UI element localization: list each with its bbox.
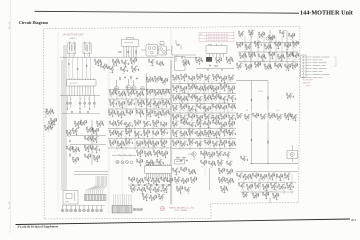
transistor Q95: [199, 106, 202, 109]
resistor R252: [109, 130, 112, 133]
transistor Q72: [207, 77, 210, 80]
transistor Q76: [175, 87, 178, 90]
capacitor C171: [73, 132, 75, 134]
wire: [88, 149, 90, 150]
wire: [296, 45, 298, 46]
resistor R214: [86, 127, 89, 130]
resistor R212: [80, 120, 83, 123]
ground: [112, 71, 114, 73]
wire: [238, 61, 298, 63]
capacitor C168: [81, 124, 83, 126]
ground: [89, 108, 91, 110]
wire: [297, 53, 299, 54]
wire: [126, 124, 128, 126]
wire: [137, 143, 139, 145]
page bottom rule: [16, 219, 351, 225]
value label: [185, 114, 187, 116]
resistor R240: [49, 125, 52, 128]
wire: [209, 154, 211, 156]
wire: [119, 103, 121, 105]
test point TP2: [121, 161, 124, 164]
ground: [229, 62, 231, 64]
wire: [233, 86, 235, 87]
resistor R282: [161, 151, 164, 154]
resistor R104: [154, 90, 157, 93]
resistor R299: [217, 120, 220, 123]
wire: [110, 92, 112, 94]
wire: [229, 77, 231, 79]
capacitor C131: [211, 98, 213, 100]
resistor R201: [260, 114, 263, 117]
value label: [75, 146, 77, 148]
transistor Q11: [198, 59, 201, 62]
value label: [139, 158, 141, 160]
wire: [239, 33, 241, 35]
resistor R130: [185, 74, 188, 77]
node: [126, 102, 129, 105]
wire: [129, 143, 131, 144]
wire: [259, 56, 261, 58]
value label: [48, 130, 50, 132]
wire: [131, 104, 133, 105]
transistor Q98: [223, 107, 226, 110]
resistor R140: [228, 75, 231, 78]
wire: [137, 152, 139, 154]
wire: [84, 88, 86, 96]
node: [257, 34, 260, 37]
transistor Q92: [175, 107, 178, 110]
wire: [147, 125, 149, 126]
wire: [185, 115, 187, 116]
svg-text:T8: T8: [210, 85, 212, 87]
capacitor C83: [138, 104, 140, 106]
transistor Q172: [183, 133, 186, 136]
wire: [252, 56, 254, 57]
wire: [51, 109, 53, 110]
value label: [202, 165, 204, 167]
wire: [249, 54, 251, 56]
capacitor C62: [51, 122, 53, 124]
wire: [225, 96, 227, 97]
capacitor C156: [237, 117, 239, 119]
wire: [279, 63, 281, 64]
wire: [230, 165, 232, 166]
value label: [294, 58, 296, 60]
capacitor C84: [144, 103, 146, 105]
wire: [245, 116, 247, 118]
transistor Q77: [183, 88, 186, 91]
wire: [244, 53, 246, 54]
resistor R176: [209, 106, 212, 109]
wire: [209, 140, 211, 141]
wire: [200, 124, 202, 125]
capacitor C50: [86, 65, 88, 67]
capacitor C261: [209, 156, 211, 158]
wire: [283, 34, 285, 35]
wire: [201, 141, 203, 142]
node: [143, 153, 146, 156]
ground: [116, 64, 118, 66]
wire: [98, 155, 100, 156]
wire: [153, 90, 155, 116]
transistor Q118: [77, 123, 80, 126]
node: [92, 157, 95, 160]
wire: [90, 88, 92, 96]
ground: [176, 90, 178, 92]
wire: [209, 126, 211, 150]
wire: [131, 110, 133, 111]
capacitor C34: [249, 56, 251, 58]
resistor R52: [253, 52, 256, 55]
capacitor C256: [219, 144, 221, 146]
capacitor C196: [153, 124, 155, 126]
wire: [137, 161, 139, 163]
resistor R334: [224, 152, 227, 155]
value label: [257, 40, 259, 42]
capacitor C115: [181, 90, 183, 92]
capacitor C35: [255, 55, 257, 57]
capacitor C257: [221, 144, 223, 146]
resistor R5: [135, 58, 138, 61]
value label: [261, 37, 263, 39]
wire: [172, 128, 236, 130]
resistor R15: [148, 59, 151, 62]
transistor Q17: [261, 34, 264, 37]
capacitor C207: [118, 145, 120, 147]
resistor R328: [233, 141, 236, 144]
wire: [125, 126, 127, 150]
capacitor C27: [255, 45, 257, 47]
wire: [73, 52, 75, 57]
wire: [231, 161, 233, 162]
capacitor C244: [213, 135, 215, 137]
resistor R96: [109, 100, 112, 103]
capacitor C46: [281, 66, 283, 68]
capacitor C12: [127, 51, 129, 53]
resistor R292: [180, 120, 183, 123]
resistor R32: [268, 35, 271, 38]
wire: [257, 36, 259, 66]
resistor R77: [51, 109, 54, 112]
transistor Q33: [289, 54, 292, 57]
resistor R327: [228, 141, 231, 144]
value label: [232, 140, 234, 142]
node: [187, 131, 190, 134]
transistor Q160: [139, 161, 142, 164]
wire: [176, 99, 178, 100]
wire: [222, 160, 224, 161]
node: [151, 122, 154, 125]
value label: [276, 68, 278, 70]
wire: [93, 148, 95, 150]
value label: [52, 120, 54, 122]
wire: [154, 152, 156, 154]
resistor R173: [188, 106, 191, 109]
capacitor C159: [269, 117, 271, 119]
wire: [249, 48, 251, 49]
wire: [244, 36, 246, 66]
resistor R172: [185, 104, 188, 107]
resistor R27: [187, 60, 190, 63]
wire: [159, 111, 161, 112]
transistor Q8: [134, 68, 137, 71]
wire: [253, 30, 255, 31]
resistor R33: [273, 35, 276, 38]
transistor Q26: [287, 45, 290, 48]
wire: [253, 115, 255, 117]
wire: [141, 49, 146, 51]
resistor R264: [114, 140, 117, 143]
wire: [228, 156, 230, 157]
wire: [224, 100, 226, 101]
node: [211, 106, 214, 109]
value label: [206, 135, 208, 137]
resistor R245: [134, 120, 137, 123]
wire: [224, 133, 226, 134]
wire: [213, 96, 215, 98]
binder hole bottom: [9, 202, 11, 209]
wire: [73, 130, 75, 132]
wire: [221, 164, 223, 165]
wire: [197, 88, 199, 90]
capacitor C173: [91, 139, 93, 141]
wire: [209, 95, 211, 96]
wire: [267, 110, 269, 122]
wire: [150, 104, 152, 105]
wire: [138, 102, 140, 104]
resistor R111: [122, 111, 125, 114]
value label: [207, 90, 209, 92]
value label: [136, 65, 138, 67]
transistor Q89: [215, 96, 218, 99]
wire: [98, 63, 100, 64]
resistor R14: [161, 61, 164, 64]
core: [70, 45, 73, 52]
svg-text:P8: P8: [200, 34, 202, 36]
transistor Q147: [155, 133, 158, 136]
value label: [230, 91, 232, 93]
IC label: [124, 42, 133, 44]
node: [171, 123, 174, 126]
capacitor C121: [213, 90, 215, 92]
wire: [84, 124, 86, 125]
transistor Q149: [112, 142, 115, 145]
value label: [182, 125, 184, 127]
capacitor C150: [213, 119, 215, 121]
value label: [232, 114, 234, 116]
capacitor C93: [124, 114, 126, 116]
wire: [217, 94, 219, 95]
transistor Q145: [137, 133, 140, 136]
capacitor C119: [205, 89, 207, 91]
transistor Q60: [129, 112, 132, 115]
wire: [108, 98, 171, 100]
wire: [110, 102, 112, 104]
value label: [231, 126, 233, 128]
transistor Q56: [157, 92, 160, 95]
transistor Q155: [163, 142, 166, 145]
resistor R170: [172, 105, 175, 108]
value label: [200, 103, 202, 105]
resistor R259: [148, 130, 151, 133]
wire: [185, 141, 187, 142]
capacitor C76: [161, 79, 163, 81]
wire: [212, 55, 214, 57]
transistor Q138: [137, 122, 140, 125]
value label: [222, 127, 224, 129]
wire: [246, 46, 248, 48]
capacitor C126: [181, 100, 183, 102]
wire: [165, 140, 167, 141]
svg-text:48-3: 48-3: [351, 219, 357, 222]
node: [203, 97, 206, 100]
value label: [270, 40, 272, 42]
capacitor C254: [197, 145, 199, 147]
value label: [174, 80, 176, 82]
ground: [184, 79, 186, 81]
node: [235, 44, 238, 47]
capacitor C57: [71, 111, 73, 113]
resistor R225: [84, 154, 87, 157]
capacitor C79: [116, 103, 118, 105]
resistor R271: [149, 140, 152, 143]
wire: [89, 104, 91, 108]
resistor R7: [99, 59, 102, 62]
transistor Q51: [112, 102, 115, 105]
value label: [251, 29, 253, 31]
capacitor C154: [235, 118, 237, 120]
resistor R174: [196, 104, 199, 107]
wire: [138, 135, 140, 136]
resistor R4: [130, 58, 133, 61]
wire: [70, 135, 106, 137]
resistor R34: [279, 30, 282, 33]
resistor R219: [84, 136, 87, 139]
capacitor C177: [99, 149, 101, 151]
resistor R43: [274, 42, 277, 45]
value label: [191, 144, 193, 146]
capacitor C86: [155, 94, 157, 96]
wire: [176, 125, 178, 126]
value label: [121, 140, 123, 142]
wire: [246, 66, 248, 68]
capacitor C245: [219, 134, 221, 136]
wire: [108, 138, 171, 140]
value label: [175, 74, 177, 76]
capacitor C165: [287, 97, 289, 99]
wire: [209, 85, 211, 86]
value label: [271, 57, 273, 59]
value label: [175, 119, 177, 121]
value label: [238, 68, 240, 70]
resistor R156: [233, 86, 236, 89]
transistor Q122: [95, 130, 98, 133]
wire: [113, 94, 115, 95]
capacitor C21: [189, 63, 191, 65]
wire: [296, 57, 298, 58]
wire: [199, 126, 201, 150]
wire: [137, 112, 139, 114]
wire: [118, 122, 120, 124]
wire: [144, 123, 146, 125]
transistor Q27: [295, 43, 298, 46]
wire: [116, 63, 118, 64]
capacitor C24: [259, 36, 261, 38]
resistor R250: [160, 122, 163, 125]
resistor R184: [177, 114, 180, 117]
wire: [135, 70, 137, 71]
node: [143, 142, 146, 145]
value label: [87, 150, 89, 152]
wire: [159, 76, 161, 77]
scan shading: [57, 28, 206, 213]
inductor L5: [171, 46, 174, 55]
wire: [275, 44, 277, 46]
wire: [84, 96, 86, 103]
value label: [96, 160, 98, 162]
wire: [229, 61, 231, 62]
value label: [191, 119, 193, 121]
wire: [201, 96, 203, 97]
node: [99, 66, 102, 69]
capacitor C92: [118, 115, 120, 117]
wire: [172, 54, 196, 56]
wire: [142, 100, 144, 101]
transistor Q78: [191, 86, 194, 89]
resistor R319: [180, 141, 183, 144]
value label: [140, 105, 142, 107]
transistor Q102: [191, 116, 194, 119]
wire: [150, 93, 152, 94]
wire: [216, 55, 218, 57]
wire: [93, 96, 95, 103]
capacitor C104: [169, 113, 171, 115]
wire: [130, 139, 132, 140]
resistor R337: [208, 161, 211, 164]
resistor R68: [264, 64, 267, 67]
wire: [89, 52, 91, 57]
wire: [237, 65, 239, 67]
transistor Q84: [175, 97, 178, 100]
node: [153, 103, 156, 106]
wire: [292, 37, 294, 38]
wire: [50, 113, 52, 114]
wire: [201, 162, 203, 164]
resistor R162: [193, 94, 196, 97]
resistor R255: [125, 129, 128, 132]
resistor R321: [196, 141, 199, 144]
value label: [121, 110, 123, 112]
wire: [233, 75, 235, 76]
capacitor C129: [197, 100, 199, 102]
capacitor C166: [293, 96, 295, 98]
wire: [216, 98, 218, 99]
wire: [164, 133, 166, 134]
wire: [76, 151, 78, 152]
svg-text:FT-2311R Technical Supplement: FT-2311R Technical Supplement: [17, 224, 58, 229]
wire: [256, 117, 258, 118]
resistor R131: [188, 76, 191, 79]
wire: [264, 118, 266, 119]
wire: [89, 42, 91, 45]
wire: [151, 77, 153, 78]
wire: [267, 81, 269, 110]
ground: [258, 46, 260, 48]
wire: [225, 84, 227, 85]
wire: [249, 68, 251, 69]
capacitor C236: [181, 135, 183, 137]
resistor R84: [118, 91, 121, 94]
